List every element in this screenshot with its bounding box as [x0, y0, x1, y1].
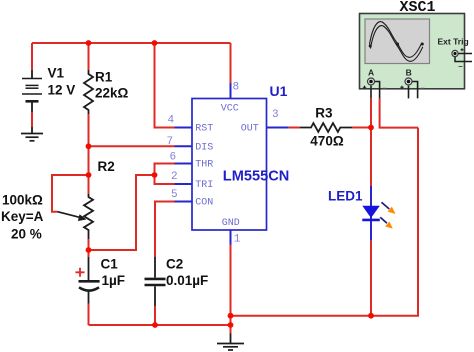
svg-text:VCC: VCC [221, 104, 239, 115]
svg-text:R3: R3 [315, 106, 333, 121]
pin 4 RST stub [168, 115, 193, 128]
label V1 value [48, 66, 76, 98]
wire R1 bottom to R2 [88, 114, 90, 194]
svg-text:U1: U1 [270, 83, 288, 99]
svg-text:C2: C2 [166, 257, 183, 272]
pin 5 CON stub [171, 189, 192, 202]
wire V1 to ground [31, 112, 33, 127]
svg-text:22kΩ: 22kΩ [95, 86, 129, 101]
svg-text:470Ω: 470Ω [310, 133, 344, 148]
resistor R3 [300, 123, 352, 132]
svg-text:5: 5 [171, 189, 178, 201]
pin 7 DIS stub [167, 136, 193, 148]
svg-text:V1: V1 [48, 66, 65, 81]
svg-text:LED1: LED1 [328, 189, 363, 204]
wire THR/TRI bracket [155, 164, 175, 185]
svg-text:DIS: DIS [195, 142, 213, 153]
wire top rail V1 to VCC column [32, 42, 231, 44]
scope channel B terminal [400, 67, 424, 98]
wire R3 to LED node [352, 127, 371, 129]
svg-text:THR: THR [195, 160, 213, 171]
wire scope A- to ground riser [380, 98, 418, 127]
potentiometer R2 [58, 194, 94, 239]
pin 6 THR stub [170, 152, 193, 164]
node ground right rail junction [228, 313, 234, 319]
label U1 [270, 83, 288, 99]
label R3 value [310, 106, 344, 149]
node R2 bottom junction [86, 247, 92, 253]
wire R1 top [88, 43, 90, 70]
ground under V1 [21, 127, 43, 141]
label LM555CN [223, 169, 289, 185]
svg-text:1: 1 [234, 234, 241, 246]
wire LED top [370, 128, 372, 187]
node LED bottom junction [368, 313, 374, 319]
label XSC1 [400, 0, 436, 16]
wire OUT to R3 [289, 127, 300, 129]
wire RST riser [155, 43, 175, 128]
svg-text:XSC1: XSC1 [400, 0, 436, 16]
wire VCC drop pin8 [230, 43, 232, 83]
oscilloscope XSC1 body [360, 14, 465, 89]
node top R1 junction [86, 40, 92, 46]
pin 3 OUT stub [267, 109, 289, 128]
svg-text:CON: CON [195, 198, 213, 209]
resistor R1 [84, 70, 93, 114]
ground main [217, 334, 244, 351]
svg-text:4: 4 [168, 115, 175, 127]
label R2 values [1, 193, 44, 242]
node DIS junction [86, 143, 92, 149]
wire GND drop pin1 [230, 245, 232, 334]
svg-text:6: 6 [170, 152, 177, 164]
svg-text:B: B [406, 67, 412, 77]
svg-text:LM555CN: LM555CN [223, 169, 289, 185]
wire bottom left rail [89, 324, 231, 326]
node TRI bracket junction [152, 172, 158, 178]
scope channel A terminal [363, 67, 387, 98]
pin 2 TRI stub [171, 171, 192, 184]
label R2 [98, 159, 115, 174]
svg-text:R2: R2 [98, 159, 115, 174]
wire CON to C2 [155, 202, 175, 258]
wire DIS to R1/R2 node [89, 145, 175, 147]
svg-text:12 V: 12 V [48, 83, 76, 98]
wire bottom right rail [231, 128, 419, 316]
capacitor C2 [145, 257, 166, 306]
wire scope A+ to OUT node [370, 98, 372, 127]
svg-text:TRI: TRI [195, 180, 213, 191]
wire V1 top lead [31, 43, 33, 70]
svg-text:20 %: 20 % [11, 227, 42, 242]
svg-text:Key=A: Key=A [1, 209, 44, 224]
Ext Trig terminal [438, 37, 473, 67]
wire wiper loop [52, 175, 89, 212]
label C2 value [166, 257, 208, 289]
battery V1 [22, 70, 42, 112]
svg-text:OUT: OUT [241, 124, 259, 135]
scope sine icon [369, 22, 424, 62]
node OUT LED junction [368, 125, 374, 131]
label C1 value [101, 257, 126, 288]
wire LED bottom [370, 241, 372, 316]
capacitor C1 [79, 250, 100, 304]
svg-text:7: 7 [167, 136, 174, 148]
svg-text:A: A [368, 67, 374, 77]
svg-text:Ext Trig: Ext Trig [438, 37, 469, 47]
svg-text:RST: RST [195, 124, 213, 135]
svg-text:1µF: 1µF [102, 273, 126, 288]
wire R2 bottom [88, 239, 90, 250]
LED LED1 [362, 186, 395, 241]
op-amp U1 LM555CN IC body [192, 99, 267, 231]
svg-text:R1: R1 [95, 69, 113, 84]
svg-text:8: 8 [233, 82, 240, 94]
wire C1 bottom [88, 304, 90, 326]
label R1 value [95, 69, 129, 100]
svg-text:2: 2 [171, 171, 178, 183]
C1 plus sign [76, 268, 85, 277]
label LED1 [328, 189, 363, 204]
node ground left rail junction [228, 322, 234, 328]
node top RST junction [152, 40, 158, 46]
IC pin names [195, 104, 258, 230]
svg-text:0.01µF: 0.01µF [166, 273, 208, 288]
node R2 top junction [86, 172, 92, 178]
node C2 bottom junction [152, 322, 158, 328]
wire C2 bottom [154, 306, 156, 325]
wire R2 wiper feed to TRI node [89, 175, 155, 250]
svg-text:100kΩ: 100kΩ [2, 193, 43, 208]
pin 8 VCC stub [231, 82, 240, 99]
svg-text:C1: C1 [101, 257, 119, 272]
svg-text:GND: GND [222, 218, 240, 229]
pin 1 GND stub [231, 230, 241, 246]
svg-text:3: 3 [272, 109, 279, 121]
